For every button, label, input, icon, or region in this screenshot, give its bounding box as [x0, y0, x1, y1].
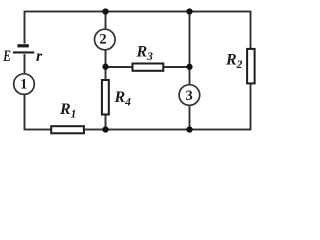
ammeter circle 3 — [179, 85, 200, 106]
node top-right junction — [186, 8, 192, 14]
battery E r (erase left wire between plates) — [10, 44, 39, 55]
svg-text:2: 2 — [99, 32, 106, 48]
wire outer loop — [25, 12, 251, 130]
svg-text:1: 1 — [20, 76, 27, 92]
svg-text:R2: R2 — [225, 52, 243, 72]
resistor R1 — [51, 126, 84, 133]
ammeter circle 1 — [14, 74, 35, 95]
svg-text:3: 3 — [185, 88, 192, 104]
wire right vertical branch (node B down) — [189, 12, 191, 130]
svg-text:r: r — [36, 48, 43, 65]
node top-left junction — [102, 8, 108, 14]
svg-text:R3: R3 — [136, 43, 154, 63]
label E — [2, 48, 11, 65]
node mid-right junction — [186, 64, 192, 70]
wire middle horizontal (R3 branch) — [106, 66, 190, 68]
resistor R2 — [247, 49, 255, 84]
ammeter circle 2 — [95, 29, 116, 50]
resistor R3 — [133, 64, 164, 71]
node bottom-left junction — [102, 126, 108, 132]
battery top plate (short thick) — [17, 44, 28, 47]
resistor R4 — [102, 80, 109, 115]
node mid-left junction — [102, 64, 108, 70]
wire middle vertical branch (node A to node C) — [105, 12, 107, 68]
svg-text:R1: R1 — [59, 101, 76, 121]
node bottom-right junction — [186, 126, 192, 132]
svg-text:R4: R4 — [114, 89, 132, 109]
wire R4 branch down — [105, 67, 107, 130]
battery bottom plate (long thin) — [13, 51, 34, 53]
svg-text:E: E — [2, 48, 11, 65]
